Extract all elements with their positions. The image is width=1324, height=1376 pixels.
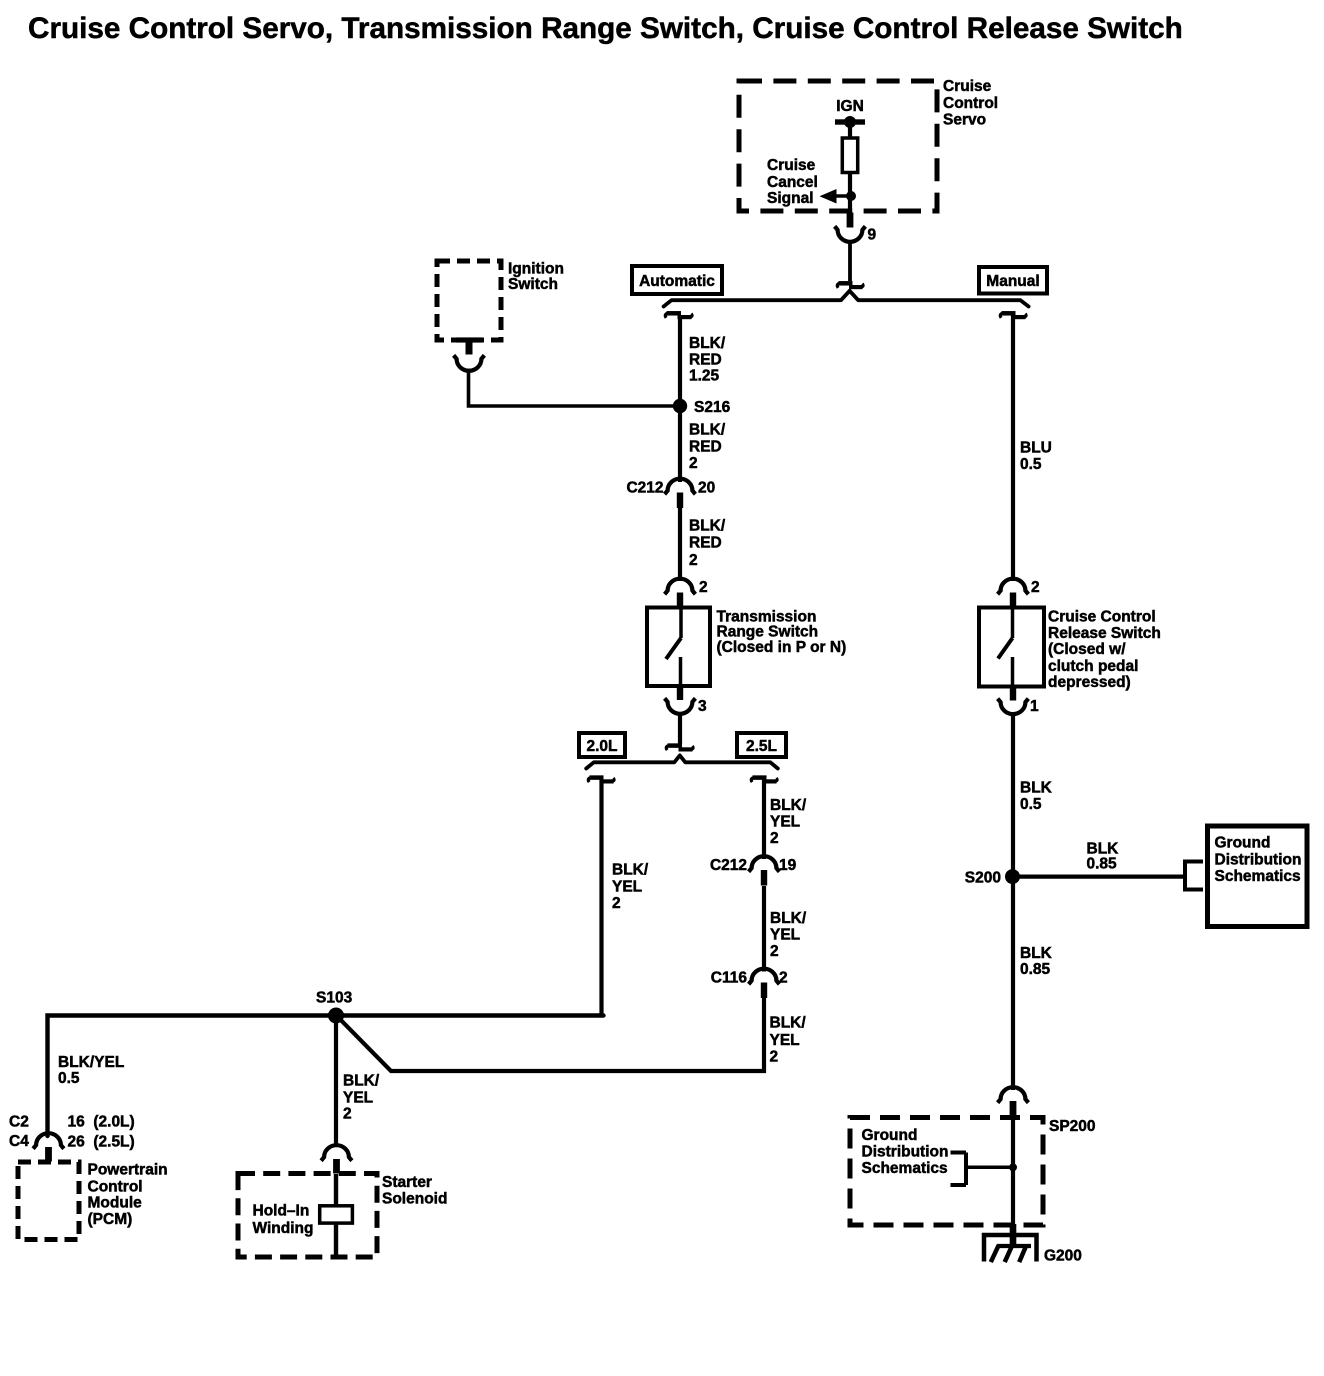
wire resistor to cancel-signal junction <box>848 171 852 213</box>
svg-text:C2: C2 <box>9 1113 29 1130</box>
transmission range switch box <box>647 608 710 687</box>
pin number 19 label <box>779 857 797 874</box>
transmission range switch contact lower <box>679 657 683 686</box>
svg-text:Control: Control <box>943 95 998 112</box>
connector servo pin 9 <box>835 226 866 242</box>
node IGN terminal bar <box>835 116 865 128</box>
svg-text:(Closed in P or N): (Closed in P or N) <box>717 639 847 656</box>
svg-text:Cruise Control Servo, Transmis: Cruise Control Servo, Transmission Range… <box>28 12 1183 45</box>
ignition switch pin bar <box>456 337 482 354</box>
splice SP200 label <box>1049 1118 1096 1135</box>
ground distribution bracket (right) <box>1185 860 1203 892</box>
svg-text:YEL: YEL <box>770 814 800 831</box>
svg-text:Cruise: Cruise <box>943 78 992 95</box>
svg-text:depressed): depressed) <box>1048 674 1131 691</box>
wire servo pin 9 down <box>848 241 852 282</box>
connector CCRS pin 2 <box>998 579 1029 607</box>
svg-text:2: 2 <box>770 943 779 960</box>
wire manual branch BLU 0.5 <box>1011 315 1015 581</box>
svg-text:RED: RED <box>689 535 722 552</box>
svg-text:2: 2 <box>770 830 779 847</box>
junction dot cruise cancel signal <box>846 191 856 201</box>
svg-text:9: 9 <box>868 227 877 244</box>
svg-text:Release Switch: Release Switch <box>1048 625 1161 642</box>
svg-text:2: 2 <box>612 895 621 912</box>
transmission range switch label <box>717 608 847 656</box>
pin number 2 label (C116) <box>779 969 788 986</box>
wire C116 down and left to S103 <box>337 999 764 1072</box>
svg-text:Solenoid: Solenoid <box>382 1190 447 1207</box>
wire C212 to transmission range switch <box>678 508 682 581</box>
ground G200 bar <box>997 1244 1031 1248</box>
starter solenoid box (dashed) <box>238 1174 377 1258</box>
svg-text:SP200: SP200 <box>1049 1118 1096 1135</box>
pin number 3 label <box>698 698 707 715</box>
bus wire automatic-manual split <box>664 291 1029 307</box>
svg-text:Schematics: Schematics <box>1215 868 1301 885</box>
pin number 1 label <box>1030 698 1039 715</box>
svg-text:Distribution: Distribution <box>862 1144 949 1161</box>
svg-text:0.5: 0.5 <box>1020 456 1042 473</box>
svg-text:16 (2.0L): 16 (2.0L) <box>68 1113 135 1130</box>
splice S103 label <box>316 989 353 1006</box>
svg-text:Schematics: Schematics <box>862 1160 948 1177</box>
CCRS contact upper <box>1011 608 1015 639</box>
splice S103 <box>328 1008 344 1024</box>
wire label BLK/RED 1.25 <box>689 335 726 385</box>
wire SP200 to ground <box>1010 1118 1017 1247</box>
splice SP200 box (dashed) <box>850 1118 1043 1226</box>
ignition switch box (dashed) <box>437 261 501 340</box>
TRS lower pin bar <box>677 686 683 701</box>
svg-text:(Closed w/: (Closed w/ <box>1048 641 1126 658</box>
connector ignition switch <box>454 355 485 371</box>
svg-text:BLK/: BLK/ <box>612 862 649 879</box>
svg-text:26 (2.5L): 26 (2.5L) <box>68 1133 135 1150</box>
automatic branch head hook <box>665 313 692 318</box>
connector CCRS pin 1 <box>998 699 1029 715</box>
bus wire 2.0L-2.5L split <box>586 755 778 768</box>
svg-text:Signal: Signal <box>767 190 814 207</box>
wire label BLU 0.5 <box>1020 440 1052 474</box>
wire inside starter solenoid <box>334 1174 338 1256</box>
wire TRS pin 3 down <box>678 713 682 745</box>
svg-text:2: 2 <box>779 969 788 986</box>
transmission range switch contact upper <box>679 608 683 639</box>
wire IGN to resistor <box>848 122 852 140</box>
svg-text:(PCM): (PCM) <box>88 1211 133 1228</box>
pin number 20 label <box>698 479 715 496</box>
svg-text:G200: G200 <box>1044 1248 1082 1265</box>
2.0L branch head hook <box>588 778 614 783</box>
svg-text:2: 2 <box>343 1106 352 1123</box>
ground G200 hatch 2 <box>1005 1246 1012 1262</box>
svg-text:Ground: Ground <box>862 1127 918 1144</box>
Manual label box <box>979 267 1047 294</box>
svg-text:BLK/: BLK/ <box>770 910 807 927</box>
ground distribution schematics label <box>1215 835 1302 886</box>
starter solenoid label <box>382 1174 447 1207</box>
svg-text:S103: S103 <box>316 989 353 1006</box>
wire label BLK/YEL 0.5 <box>58 1054 124 1087</box>
cruise cancel signal label <box>767 157 818 207</box>
wire C212-19 to C116 <box>762 886 766 972</box>
wire break hook above bus <box>837 283 863 288</box>
wire automatic branch BLK/RED 1.25 <box>678 315 682 406</box>
svg-text:YEL: YEL <box>612 879 642 896</box>
PCM pin labels <box>68 1113 135 1150</box>
2.5L label box <box>737 733 786 757</box>
powertrain control module label <box>88 1162 168 1228</box>
wire label BLK/YEL 2 (2.0L branch) <box>612 862 649 913</box>
svg-text:C116: C116 <box>711 969 748 986</box>
2.0L label box <box>579 733 625 757</box>
connector starter solenoid <box>321 1145 352 1173</box>
wire break hook above engine bus <box>666 746 693 751</box>
svg-text:clutch pedal: clutch pedal <box>1048 658 1138 675</box>
svg-text:YEL: YEL <box>343 1090 373 1107</box>
wire label BLK/RED 2 (upper) <box>689 422 726 473</box>
svg-text:Manual: Manual <box>986 273 1039 290</box>
svg-text:2: 2 <box>689 455 698 472</box>
hold-in winding label <box>253 1203 314 1237</box>
svg-text:Winding: Winding <box>253 1220 314 1237</box>
pin number 9 label <box>868 227 877 244</box>
wire label BLK/YEL 2 (starter) <box>343 1073 380 1123</box>
svg-text:BLK/: BLK/ <box>689 335 726 352</box>
svg-text:RED: RED <box>689 439 722 456</box>
CCRS contact lower <box>1011 657 1015 687</box>
svg-text:2: 2 <box>1031 579 1040 596</box>
Automatic label box <box>632 266 722 294</box>
svg-text:BLK/: BLK/ <box>689 518 726 535</box>
cruise control servo box (dashed) <box>739 81 937 211</box>
svg-text:19: 19 <box>779 857 797 874</box>
svg-text:BLK: BLK <box>1020 780 1053 797</box>
ground G200 hatch 3 <box>1019 1246 1026 1262</box>
node IGN label <box>836 98 864 115</box>
splice S216 <box>673 399 687 413</box>
cruise cancel signal arrow <box>820 189 853 204</box>
svg-text:BLK/YEL: BLK/YEL <box>58 1054 124 1071</box>
wire S200 to ground distribution <box>1012 874 1185 878</box>
svg-text:2: 2 <box>689 552 698 569</box>
wire label BLK/YEL 2 (2.5L upper) <box>770 797 807 847</box>
splice S216 label <box>694 399 731 416</box>
svg-text:BLK/: BLK/ <box>770 797 807 814</box>
wire label BLK 0.85 (lower) <box>1020 945 1053 978</box>
ground G200 hatch 1 <box>991 1245 999 1262</box>
svg-text:Distribution: Distribution <box>1215 851 1302 868</box>
svg-text:IGN: IGN <box>836 98 864 115</box>
svg-text:BLK/: BLK/ <box>770 1015 807 1032</box>
connector C212 label (pin 19) <box>710 857 747 874</box>
svg-text:1.25: 1.25 <box>689 368 720 385</box>
connector C212 pin 19 <box>749 856 780 885</box>
ground distribution schematics label (SP200) <box>862 1127 949 1177</box>
title text <box>28 12 1183 45</box>
svg-text:YEL: YEL <box>770 927 800 944</box>
junction dot SP200 <box>1009 1163 1017 1171</box>
svg-text:2.0L: 2.0L <box>586 738 617 755</box>
svg-text:Automatic: Automatic <box>639 273 715 290</box>
connector PCM C4 <box>33 1133 64 1161</box>
splice S200 label <box>965 869 1001 886</box>
ground G200 frame <box>984 1235 1037 1262</box>
pin number 2 label (CCRS) <box>1031 579 1040 596</box>
wire label BLK/YEL 2 (2.5L middle) <box>770 910 807 960</box>
svg-text:0.5: 0.5 <box>1020 796 1042 813</box>
wire S103 horizontal bus <box>48 1016 604 1137</box>
svg-text:Control: Control <box>88 1178 143 1195</box>
connector TRS pin 3 <box>665 698 696 714</box>
connector C212 label <box>626 479 663 496</box>
connector PCM labels C2 C4 <box>9 1113 29 1149</box>
wire S216 to C212 <box>678 406 682 482</box>
svg-text:1: 1 <box>1030 698 1039 715</box>
svg-text:0.5: 0.5 <box>58 1070 80 1087</box>
ignition switch label <box>508 261 564 293</box>
svg-text:S216: S216 <box>694 399 731 416</box>
wire 2.5L branch to C212 <box>762 779 766 859</box>
svg-text:0.85: 0.85 <box>1020 961 1051 978</box>
wire label BLK/RED 2 (lower) <box>689 518 726 570</box>
svg-text:Cancel: Cancel <box>767 174 818 191</box>
splice S200 <box>1005 869 1020 884</box>
resistor hold-in winding <box>320 1206 353 1223</box>
connector SP200 <box>998 1087 1029 1117</box>
2.5L branch head hook <box>751 778 777 783</box>
cruise control release switch label <box>1048 609 1161 691</box>
svg-text:Hold–In: Hold–In <box>253 1203 310 1220</box>
svg-text:2: 2 <box>770 1049 779 1066</box>
wire ignition switch to S216 <box>469 369 681 407</box>
connector C212 pin 20 <box>665 479 696 508</box>
cruise control servo label <box>943 78 998 128</box>
svg-text:0.85: 0.85 <box>1087 856 1118 873</box>
wire CCRS to S200 to SP200 <box>1011 713 1015 1091</box>
svg-text:3: 3 <box>698 698 707 715</box>
svg-text:Module: Module <box>88 1194 143 1211</box>
servo pin bar <box>847 213 854 228</box>
svg-text:Cruise: Cruise <box>767 157 816 174</box>
svg-text:BLU: BLU <box>1020 440 1052 457</box>
svg-text:C212: C212 <box>626 479 663 496</box>
powertrain control module box (dashed) <box>18 1162 79 1240</box>
ground distribution bracket (SP200) <box>951 1153 1014 1186</box>
wire label BLK 0.85 (upper) <box>1087 841 1120 873</box>
svg-text:BLK/: BLK/ <box>689 422 726 439</box>
manual branch head hook <box>1000 313 1026 318</box>
CCRS lower pin bar <box>1010 686 1016 701</box>
svg-text:Servo: Servo <box>943 112 986 129</box>
wire label BLK 0.5 <box>1020 780 1053 814</box>
wire label BLK/YEL 2 (2.5L lower) <box>770 1015 807 1066</box>
svg-text:C4: C4 <box>9 1133 29 1150</box>
svg-text:2: 2 <box>699 579 708 596</box>
resistor R servo coil <box>842 138 857 173</box>
connector C116 label <box>711 969 748 986</box>
svg-text:Switch: Switch <box>508 276 558 293</box>
svg-text:Cruise Control: Cruise Control <box>1048 609 1156 626</box>
svg-text:YEL: YEL <box>770 1032 800 1049</box>
ground distribution schematics box <box>1208 826 1308 927</box>
wire 2.0L branch BLK/YEL 2 <box>599 779 603 1016</box>
svg-text:S200: S200 <box>965 869 1001 886</box>
connector C116 pin 2 <box>749 969 780 998</box>
svg-text:Ground: Ground <box>1215 835 1271 852</box>
svg-text:Powertrain: Powertrain <box>88 1162 168 1179</box>
CCRS blade <box>998 638 1013 659</box>
pin number 2 label <box>699 579 708 596</box>
cruise control release switch box <box>979 608 1044 687</box>
svg-text:BLK/: BLK/ <box>343 1073 380 1090</box>
svg-text:2.5L: 2.5L <box>746 738 777 755</box>
svg-text:BLK: BLK <box>1020 945 1053 962</box>
connector TRS pin 2 <box>665 579 696 607</box>
ground G200 label <box>1044 1248 1082 1265</box>
svg-text:C212: C212 <box>710 857 747 874</box>
transmission range switch blade <box>666 638 681 659</box>
svg-text:Starter: Starter <box>382 1174 432 1191</box>
svg-text:20: 20 <box>698 479 715 496</box>
wire S103 to starter solenoid <box>334 1016 338 1148</box>
svg-text:RED: RED <box>689 352 722 369</box>
